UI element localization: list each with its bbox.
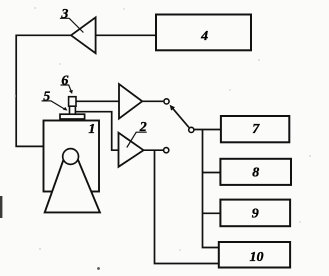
block 8 bbox=[220, 159, 291, 185]
label 1 bbox=[88, 122, 95, 137]
faint scan specks bbox=[14, 7, 311, 251]
wire amp3 to block 4 bbox=[96, 34, 156, 36]
wire sensor to upper amplifier bbox=[76, 100, 119, 102]
scan mark left edge bbox=[0, 196, 2, 218]
svg-text:7: 7 bbox=[252, 122, 260, 137]
label 3 with underline and leader bbox=[60, 7, 84, 33]
svg-text:6: 6 bbox=[61, 74, 68, 89]
wire from amp3 apex left then down then right into block 1 bbox=[16, 35, 71, 146]
sensor lower part 5 bbox=[70, 106, 76, 114]
sensor upper part 6 bbox=[69, 97, 76, 107]
svg-text:1: 1 bbox=[88, 122, 95, 137]
wire amp2 to lower switch contact bbox=[144, 149, 164, 151]
switch lower contact bbox=[164, 148, 169, 153]
block 10 bbox=[219, 242, 290, 268]
block 7 bbox=[221, 116, 289, 142]
wire upper amp to top switch contact bbox=[142, 100, 163, 102]
svg-text:2: 2 bbox=[139, 120, 147, 135]
svg-text:9: 9 bbox=[252, 207, 259, 222]
label 2 with underline and leader bbox=[127, 120, 147, 147]
pedestal flange on top of block 1 bbox=[60, 114, 85, 119]
stub wire to block 8 bbox=[203, 172, 221, 174]
svg-text:10: 10 bbox=[250, 250, 264, 265]
bus wire down with stub to block 10 bbox=[203, 130, 219, 248]
label 5 with underline and arrow leader bbox=[42, 90, 68, 111]
amplifier 2 (right-pointing triangle) bbox=[119, 133, 144, 167]
wire common contact to block 7 bbox=[194, 129, 221, 131]
label 6 with underline and arrow leader bbox=[61, 74, 73, 94]
svg-text:4: 4 bbox=[200, 29, 208, 44]
stub wire to block 9 bbox=[203, 212, 221, 214]
wire branch from amp2 output down and right to block 10 bbox=[155, 150, 219, 263]
switch top contact bbox=[164, 99, 169, 104]
cone inside block 1 bbox=[45, 159, 100, 213]
block 1 vibration table body bbox=[44, 121, 100, 192]
switch lever with arrowhead bbox=[170, 105, 189, 128]
eccentric circle on cone bbox=[63, 149, 79, 165]
upper amplifier (right-pointing triangle) bbox=[119, 84, 142, 119]
block 9 bbox=[220, 200, 290, 227]
svg-text:5: 5 bbox=[43, 90, 50, 105]
block 4 bbox=[156, 15, 251, 51]
amplifier 3 (left-pointing triangle) bbox=[71, 17, 96, 53]
scan dot bottom bbox=[97, 267, 100, 270]
svg-text:3: 3 bbox=[60, 7, 68, 22]
wire sensor down and right to amplifier 2 bbox=[75, 112, 118, 151]
switch common contact bbox=[189, 127, 194, 132]
svg-text:8: 8 bbox=[252, 166, 259, 181]
